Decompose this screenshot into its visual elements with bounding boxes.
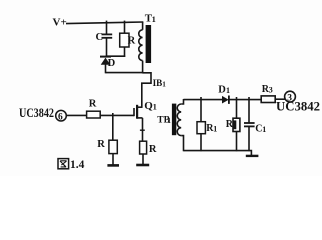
inductor T1 primary winding [139,30,143,61]
wire capacitor bottom lead [106,38,108,57]
wire resistor R bottom lead [124,47,126,57]
pin 3 terminal circle [285,91,296,103]
wire R2 drop [236,97,238,118]
wire pin6 to gate resistor [66,114,86,116]
diode D1 [218,84,230,104]
inductor TB1 winding [177,104,181,136]
wire divider junction drop [112,113,114,140]
wire secondary loop left vertical [181,99,183,151]
diode D [100,57,116,69]
ground (source) [136,164,149,167]
label figure 1.4 [58,159,85,172]
wire C1 bottom lead [248,127,250,151]
wire source R bottom lead [142,154,144,165]
svg-text:3: 3 [269,86,273,95]
resistor R1 [197,122,217,135]
wire secondary bottom rail [184,151,252,156]
wire R2 bottom lead [236,132,238,152]
svg-text:1: 1 [226,86,230,95]
transistor Q1 (MOSFET) [134,100,157,119]
wire D1 cathode to R3 [229,99,261,101]
resistor R3 [261,84,275,103]
svg-text:1: 1 [213,125,217,134]
node IB1 label [153,78,167,88]
wire jog to Q1 drain [142,73,151,108]
wire T1 primary top lead [142,22,144,30]
wire source junction tick [140,129,145,131]
wire junction tick resistor R lead [124,21,126,34]
transformer T1 core bar [146,25,152,63]
svg-text:1: 1 [152,14,156,24]
svg-text:D: D [108,58,116,69]
wire R3 to pin 3 circle [275,98,285,100]
wire snubber return rail [106,72,144,74]
svg-text:UC3842: UC3842 [19,106,54,120]
resistor R2 (adjustable) [226,118,240,131]
resistor R (gate series) [87,99,101,119]
svg-text:1: 1 [153,101,157,111]
wire secondary loop top [184,99,223,101]
svg-text:1: 1 [167,116,171,125]
wire gate resistor to Q1 gate [100,114,134,116]
svg-text:C: C [96,32,104,43]
resistor R (gate divider) [97,139,117,154]
svg-text:R: R [149,144,157,155]
resistor R (Q1 source sense) [140,141,157,155]
svg-text:1: 1 [162,81,166,89]
capacitor C1 [244,123,266,134]
capacitor C [96,32,113,43]
svg-text:R: R [89,99,97,110]
wire T1 primary bottom lead [142,61,144,74]
resistor R (snubber) [120,33,136,47]
svg-text:6: 6 [58,113,63,123]
wire C1 drop [248,97,250,123]
svg-text:UC3842: UC3842 [276,99,320,114]
wire top rail V+ to T1 [66,22,143,24]
node V+ [53,17,67,29]
svg-text:R: R [226,119,234,130]
svg-text:R: R [128,36,136,47]
ground (divider) [107,164,119,167]
wire Q1 source lead [142,118,144,141]
wire jog joining C and R bottoms [106,55,126,57]
svg-text:1: 1 [262,125,266,134]
wire junction tick capacitor C lead [106,21,108,34]
wire R1 drop [200,97,202,122]
svg-text:R: R [97,139,105,150]
transformer TB1 core bar [172,104,176,136]
wire R1 bottom lead [200,134,202,152]
node TB1 label [157,116,171,126]
pin 6 terminal circle [56,110,67,122]
svg-text:IB: IB [153,78,163,88]
wire divider R bottom lead [112,154,114,165]
wire diode anode lead [105,65,107,74]
svg-text:V+: V+ [53,17,67,29]
ground (secondary) [246,155,259,157]
svg-text:1.4: 1.4 [70,159,85,171]
transformer T1 label [145,12,156,24]
